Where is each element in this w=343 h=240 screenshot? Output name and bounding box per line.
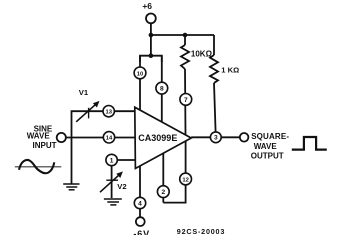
svg-text:12: 12 <box>182 177 188 183</box>
svg-text:WAVE: WAVE <box>254 142 278 151</box>
svg-text:SQUARE-: SQUARE- <box>251 132 289 141</box>
svg-text:+6: +6 <box>142 1 152 11</box>
svg-text:OUTPUT: OUTPUT <box>251 151 284 160</box>
svg-text:10KΩ: 10KΩ <box>191 49 213 58</box>
svg-text:13: 13 <box>105 110 112 116</box>
svg-text:V1: V1 <box>79 88 89 97</box>
svg-text:WAVE: WAVE <box>27 132 51 141</box>
svg-text:CA3099E: CA3099E <box>138 133 177 143</box>
svg-text:4: 4 <box>138 200 142 207</box>
svg-text:10: 10 <box>137 71 143 77</box>
svg-text:92CS-20003: 92CS-20003 <box>177 227 225 235</box>
svg-text:V2: V2 <box>117 182 126 191</box>
svg-text:3: 3 <box>214 135 218 142</box>
svg-text:1: 1 <box>110 157 114 164</box>
svg-text:14: 14 <box>106 136 113 142</box>
svg-text:INPUT: INPUT <box>33 141 57 150</box>
svg-text:8: 8 <box>160 86 164 93</box>
svg-text:-6V: -6V <box>133 229 150 235</box>
svg-text:1 KΩ: 1 KΩ <box>221 66 239 75</box>
svg-text:2: 2 <box>161 189 165 196</box>
svg-text:7: 7 <box>184 97 188 104</box>
